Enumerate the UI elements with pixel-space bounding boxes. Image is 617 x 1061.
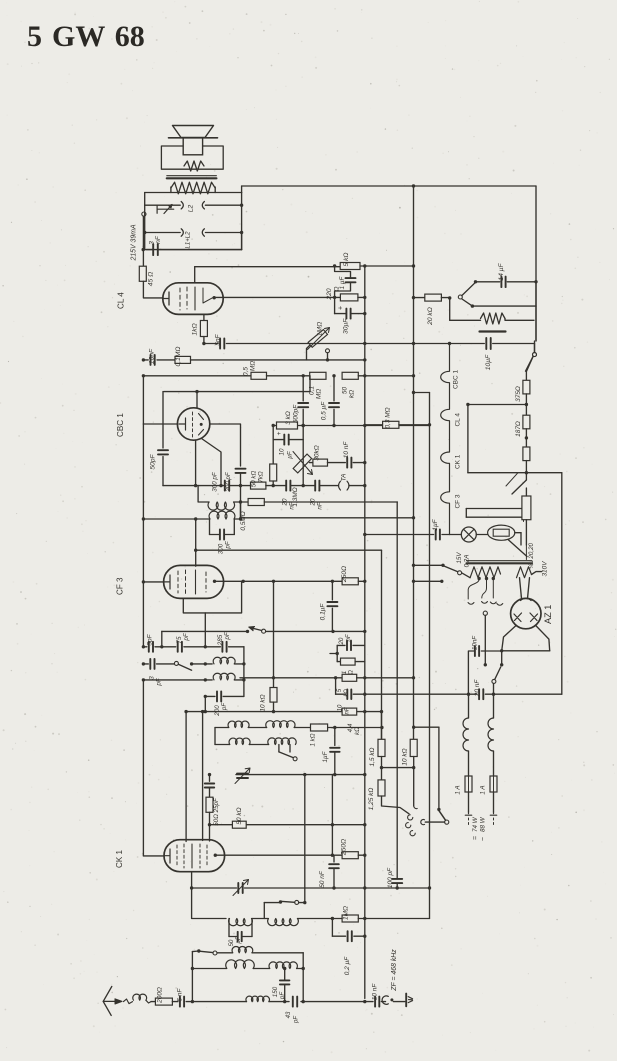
junction y581 a	[242, 580, 245, 583]
junction 14uF left	[474, 280, 477, 283]
capacitor 10nF IF	[328, 462, 346, 464]
wire x161 stub	[161, 631, 163, 646]
svg-text:50 nF: 50 nF	[319, 870, 326, 888]
coil ant F	[246, 996, 270, 1001]
resistor mains dropper	[522, 496, 531, 520]
resistor 50k CK1	[232, 821, 246, 828]
capacitor 30uF electrolytic	[345, 309, 347, 319]
rail y774	[236, 774, 365, 776]
svg-text:5 nF: 5 nF	[177, 987, 184, 1001]
junction CBC1 top	[195, 390, 198, 393]
row y679	[143, 679, 212, 681]
switch band contact	[262, 629, 266, 633]
svg-text:0,3 MΩ: 0,3 MΩ	[385, 407, 392, 428]
wire 3nF leads	[143, 249, 153, 251]
junction y517-V8	[412, 516, 415, 519]
svg-text:5pF: 5pF	[147, 633, 154, 645]
junction y375-bus	[363, 374, 366, 377]
vertical x303 lower	[302, 426, 304, 486]
resistor chain 375	[534, 341, 536, 353]
hum tap symbol	[157, 205, 174, 214]
output transformer core	[167, 175, 217, 177]
capacitor 50pF	[162, 392, 164, 448]
CK1 screen	[191, 844, 193, 868]
junction V1-y519	[142, 517, 145, 520]
rail AVC y519	[143, 518, 209, 520]
resistor 30k	[310, 462, 313, 464]
coil ant b	[226, 960, 255, 969]
coil ant c	[269, 962, 297, 969]
potentiometer 1.3M	[293, 454, 311, 473]
svg-text:20: 20	[282, 498, 289, 506]
resistor 0.3M	[365, 424, 383, 426]
junction y824-bus	[363, 823, 366, 826]
svg-text:Ω: Ω	[334, 286, 341, 291]
svg-text:75: 75	[176, 636, 183, 643]
transformer core	[467, 560, 532, 562]
junction 220-bus	[363, 296, 366, 299]
svg-text:pF: pF	[183, 632, 190, 641]
wire y918 right	[365, 918, 430, 920]
svg-text:L2: L2	[188, 205, 195, 213]
rail y728 right	[414, 726, 439, 728]
IF coil secondary 888	[208, 502, 235, 510]
junction cup corner	[500, 649, 503, 652]
speaker magnet body	[183, 138, 202, 155]
junction y711-x381	[380, 710, 383, 713]
svg-text:nF: nF	[155, 235, 162, 244]
resistor 10k osc	[273, 678, 275, 688]
trimmer cap CK1	[237, 773, 248, 775]
svg-text:1MΩ: 1MΩ	[317, 322, 324, 336]
wire rail to V8	[360, 265, 414, 267]
fuse	[476, 534, 487, 536]
row 200pF y696	[205, 695, 215, 697]
junction y646 x161	[160, 645, 163, 648]
junction lamp-bus	[363, 533, 366, 536]
junction ant-bus	[363, 1000, 366, 1003]
switch heater blade	[526, 357, 534, 372]
capacitor 0.2uF	[331, 919, 333, 937]
IF tuning cap 300pF	[209, 519, 211, 535]
wire y343 V8 to heater	[414, 343, 450, 345]
svg-text:150: 150	[272, 986, 279, 997]
capacitor 25pF	[205, 783, 214, 785]
osc coil box left	[214, 728, 216, 745]
resistor 10k right	[410, 739, 417, 756]
capacitor 300pF diode	[236, 468, 246, 470]
vertical x397	[396, 502, 398, 879]
capacitor 10nF psu	[481, 650, 501, 652]
capacitor 1uF osc	[330, 747, 340, 749]
coil osc b	[213, 673, 235, 680]
wire primary left down	[170, 187, 172, 193]
svg-text:10µF: 10µF	[485, 354, 492, 370]
barretter resistor	[450, 319, 481, 321]
rail CBC1 anode y391	[164, 391, 310, 393]
svg-text:pF: pF	[224, 631, 231, 640]
mains switch	[414, 564, 444, 566]
junction 30k-bus	[363, 461, 366, 464]
switch ant contact	[213, 951, 217, 955]
svg-text:3: 3	[149, 676, 156, 680]
svg-text:10nF: 10nF	[149, 348, 156, 364]
RC pair 5k 10nF	[240, 677, 342, 679]
vertical x429 lower	[429, 694, 431, 918]
capacitor 5nF	[219, 339, 221, 349]
rail y425 right	[365, 425, 430, 427]
svg-text:nF: nF	[289, 501, 296, 509]
rail cathode y343	[204, 343, 218, 345]
wire y343 bus to V8	[365, 343, 414, 345]
svg-text:nF: nF	[345, 707, 351, 714]
capacitor 200pF inline	[224, 481, 226, 491]
rail PSU y694	[353, 693, 477, 695]
resistor 1kOhm CL4 cathode	[203, 314, 205, 320]
selector contact hooks	[408, 815, 413, 820]
wire CBC1 bottom	[195, 440, 197, 485]
IF coil primary	[209, 511, 235, 519]
vertical x381 screen	[381, 550, 383, 739]
switch B blade	[462, 282, 476, 295]
svg-text:CBC 1: CBC 1	[453, 370, 460, 389]
junction y696 x205	[204, 695, 207, 698]
junction x536-14uF	[534, 280, 537, 283]
wire diode load to x397	[264, 501, 397, 503]
osc switch	[289, 745, 291, 753]
tube AZ1 envelope	[511, 598, 541, 628]
svg-text:1,5 kΩ: 1,5 kΩ	[369, 747, 376, 766]
wire L-box left	[144, 205, 146, 249]
capacitor 1uF anode	[346, 277, 356, 279]
rail anode supply	[195, 266, 341, 268]
junction 30uF-bus	[363, 312, 366, 315]
junction 500p top	[302, 374, 305, 377]
junction y679 x205	[204, 678, 207, 681]
wire ant to R	[151, 1001, 155, 1003]
svg-text:43: 43	[286, 1011, 292, 1018]
wire x303 down	[302, 953, 304, 1002]
tap wire 1	[468, 579, 479, 604]
resistor 1.25k	[381, 768, 383, 780]
fuse 1A left	[465, 776, 472, 792]
svg-text:nF: nF	[346, 634, 352, 641]
wire CBC1 diode2	[202, 439, 222, 486]
transformer primary	[470, 567, 500, 578]
rail switch y631	[162, 630, 248, 632]
svg-text:5nF: 5nF	[215, 333, 222, 345]
svg-text:50: 50	[342, 387, 349, 395]
svg-text:CL 4: CL 4	[117, 292, 126, 309]
tap wire 2	[482, 579, 488, 603]
junction y425-bus	[363, 424, 366, 427]
svg-text:14 µF: 14 µF	[498, 262, 505, 280]
svg-text:=: =	[473, 836, 480, 840]
wire switch to bus	[266, 630, 365, 632]
svg-text:+: +	[338, 306, 345, 310]
osc fb switch	[263, 903, 265, 919]
capacitor 3nF	[152, 244, 154, 255]
vertical x438	[438, 727, 440, 809]
svg-text:5 kΩ: 5 kΩ	[343, 252, 350, 266]
capacitor 50nF	[333, 855, 335, 862]
junction y425 caps	[302, 424, 305, 427]
vertical x273 long	[273, 581, 275, 678]
coil ant a	[217, 952, 232, 954]
antenna symbol	[103, 986, 112, 1015]
svg-text:215V 39mA: 215V 39mA	[131, 224, 138, 261]
svg-text:1 kΩ: 1 kΩ	[310, 733, 317, 746]
wire primary right down	[214, 187, 216, 193]
tube CF3 envelope	[164, 565, 224, 598]
CK1 anode dot	[214, 854, 217, 857]
CF3 cathode box	[183, 581, 241, 613]
svg-text:1µF: 1µF	[322, 750, 329, 762]
CF3 grid dashes	[178, 570, 206, 594]
svg-text:7kΩ: 7kΩ	[258, 471, 265, 483]
svg-text:TA: TA	[341, 474, 348, 482]
junction y663 x205	[204, 662, 207, 665]
wire x536 seg	[535, 282, 537, 341]
svg-text:10 kΩ: 10 kΩ	[402, 748, 409, 765]
L2 box top	[144, 193, 146, 206]
switch osc blade	[178, 664, 191, 670]
svg-text:CBC 1: CBC 1	[116, 413, 125, 437]
wire to ground	[393, 1001, 404, 1003]
resistor 1M det	[342, 915, 358, 922]
svg-text:pF: pF	[225, 540, 232, 549]
svg-text:10 nF: 10 nF	[343, 441, 350, 459]
row y966	[192, 968, 226, 970]
rail y375	[143, 375, 251, 377]
resistor 0.1M grid	[175, 356, 191, 363]
osc fb box	[252, 918, 268, 920]
wire coil2 right	[234, 518, 240, 520]
rail CF3 anode y581	[216, 580, 332, 582]
mains prong right	[490, 812, 496, 815]
svg-text:CF 3: CF 3	[116, 577, 125, 595]
svg-text:~: ~	[480, 837, 487, 841]
wire box bottom	[147, 249, 242, 251]
svg-text:ZF = 468 kHz: ZF = 468 kHz	[391, 949, 398, 992]
junction y343-bus	[363, 342, 366, 345]
svg-text:220: 220	[326, 288, 333, 300]
wire coil1 right	[234, 501, 241, 503]
tube CL4 envelope	[163, 283, 223, 315]
junction y550	[194, 549, 197, 552]
junction anode x332	[331, 854, 334, 857]
svg-text:1MΩ: 1MΩ	[343, 906, 350, 920]
switch B contact	[458, 295, 462, 299]
rail detector y485	[163, 485, 225, 487]
chassis jack	[382, 996, 388, 1004]
junction 250-bus	[363, 854, 366, 857]
junction psu choke2	[492, 693, 495, 696]
CL4 screen dash	[194, 287, 196, 310]
junction diode bottom	[239, 517, 242, 520]
junction y581-bus	[363, 580, 366, 583]
wire ant row mid	[269, 1001, 289, 1003]
capacitor 20nF psu	[478, 689, 480, 699]
svg-text:310V: 310V	[542, 561, 549, 577]
L2 box right side	[241, 193, 243, 250]
junction 1k bottom	[202, 342, 205, 345]
svg-text:50 kΩ: 50 kΩ	[251, 470, 258, 487]
speaker LS cone	[173, 126, 214, 138]
capacitor 10nF gnd	[365, 1001, 373, 1003]
osc coil box	[215, 727, 229, 729]
svg-text:CK 1: CK 1	[115, 850, 124, 868]
switch heater contact	[533, 353, 537, 357]
selector wiper	[483, 611, 487, 615]
rail CK1 anode	[217, 854, 333, 856]
svg-text:¼u 20,20: ¼u 20,20	[528, 542, 535, 569]
selector loop top	[468, 404, 527, 406]
capacitor 3pF	[149, 659, 151, 669]
row pF caps y646	[143, 646, 146, 648]
output transformer primary winding	[171, 182, 215, 194]
svg-text:MΩ: MΩ	[316, 389, 323, 399]
wire y375 mid	[267, 375, 310, 377]
resistor 7k vertical	[270, 464, 277, 481]
wire 220 to bus	[358, 296, 365, 298]
junction y711-bus	[363, 710, 366, 713]
potentiometer 1M	[308, 330, 327, 348]
tap wire 3	[490, 579, 503, 605]
junction y581 b	[272, 580, 275, 583]
wire band sw riser	[191, 969, 193, 1002]
junction 3nF row	[142, 248, 145, 251]
svg-text:1,25 kΩ: 1,25 kΩ	[368, 788, 375, 811]
wire CK1 grid stub	[209, 825, 211, 841]
terminal 215V	[142, 212, 146, 216]
wire 20k to switch	[441, 297, 449, 299]
rail y425	[274, 425, 365, 427]
rail grid y824	[210, 824, 365, 826]
svg-text:100 pF: 100 pF	[387, 867, 394, 888]
selector detour wires	[466, 508, 523, 510]
rail lamp y534	[365, 534, 434, 536]
svg-text:30µF: 30µF	[343, 318, 350, 334]
CL4 grid dashes	[180, 287, 187, 310]
coil osc a	[213, 657, 235, 664]
svg-text:3 kΩ: 3 kΩ	[285, 411, 292, 425]
svg-text:pF: pF	[156, 677, 163, 686]
primary tap dots	[477, 577, 480, 580]
svg-text:20: 20	[310, 498, 317, 506]
wire coil a right	[234, 663, 244, 665]
capacitor 10nF grid	[150, 355, 152, 365]
wire y375 to V8	[358, 375, 413, 377]
CF3 screen	[195, 570, 197, 594]
capacitor 10uF	[450, 343, 485, 345]
junction TA-bus	[363, 484, 366, 487]
resistor 45Ohm	[139, 266, 146, 281]
selector blades	[525, 473, 527, 480]
junction V1-y646	[142, 645, 145, 648]
wire pot left arm	[307, 346, 310, 360]
junction rail1-bus	[363, 264, 366, 267]
coil osc c	[229, 919, 253, 926]
svg-text:pF: pF	[294, 1016, 300, 1024]
svg-text:+: +	[276, 431, 283, 435]
junction sw-bus	[363, 630, 366, 633]
svg-text:20 kΩ: 20 kΩ	[427, 307, 434, 326]
junction 220 left	[333, 296, 336, 299]
speaker cone baseline	[169, 137, 218, 139]
fuse leader line	[508, 540, 527, 557]
svg-text:1 A: 1 A	[480, 785, 487, 794]
junction y663 x191	[190, 662, 193, 665]
wire switch stem	[449, 298, 451, 320]
selector common contact	[445, 820, 449, 824]
switch band blade	[249, 627, 262, 630]
junction y774 b	[333, 773, 336, 776]
resistor 0.5M diode load	[241, 501, 249, 503]
resistor 4.4k	[342, 708, 357, 715]
resistor 200ohm	[155, 998, 172, 1005]
svg-text:L1+L2: L1+L2	[186, 231, 192, 249]
junction 300p rail	[239, 484, 242, 487]
fuse 1A right	[490, 776, 497, 792]
svg-text:375Ω: 375Ω	[515, 386, 522, 402]
capacitor 285pF	[221, 642, 223, 652]
rail y550	[196, 549, 382, 551]
capacitor 75pF	[177, 642, 179, 652]
coil osc d	[268, 919, 299, 926]
junction diode2 rail	[219, 484, 222, 487]
dial lamp	[450, 534, 462, 536]
resistor 50ohm	[209, 788, 211, 798]
capacitor 500pF	[302, 376, 304, 401]
ground symbol	[405, 994, 407, 1007]
wire fuse right	[515, 532, 521, 534]
AZ1 anode tab	[521, 598, 532, 600]
junction sw-x333	[331, 630, 334, 633]
wire dropper to primary	[525, 545, 527, 560]
junction y343-heater	[448, 342, 451, 345]
svg-text:1: 1	[342, 671, 348, 674]
junction V1-y375	[142, 374, 145, 377]
svg-text:0,5 µF: 0,5 µF	[321, 401, 328, 421]
svg-text:µF: µF	[287, 450, 294, 459]
svg-text:10 kΩ: 10 kΩ	[260, 694, 267, 711]
resistor 0.5M y375	[251, 372, 267, 379]
rail AVC y517	[240, 517, 414, 519]
rail IF out y888	[192, 887, 237, 889]
wire CBC1 left	[143, 423, 177, 425]
resistor 5kOhm	[340, 263, 360, 270]
svg-text:300: 300	[218, 543, 225, 554]
switch osc contact	[174, 661, 178, 665]
wire CK1 top feeds	[185, 712, 187, 842]
wire CBC1 top	[196, 392, 198, 409]
capacitor 1uF heater	[435, 530, 437, 540]
junction psu choke1	[467, 693, 470, 696]
svg-text:74 W: 74 W	[472, 816, 479, 832]
wire CK1 left	[143, 855, 164, 857]
junction 20k-V8	[412, 296, 415, 299]
mains prong left	[465, 812, 471, 815]
svg-text:500pF: 500pF	[293, 404, 300, 423]
junction diode load	[239, 500, 242, 503]
svg-text:pF: pF	[221, 702, 228, 711]
wire 300p down	[240, 473, 242, 519]
capacitor 5nF ant	[172, 1001, 178, 1003]
svg-text:20: 20	[339, 637, 345, 645]
resistor 250 screen	[332, 580, 342, 582]
svg-text:10 nF: 10 nF	[372, 983, 379, 1001]
